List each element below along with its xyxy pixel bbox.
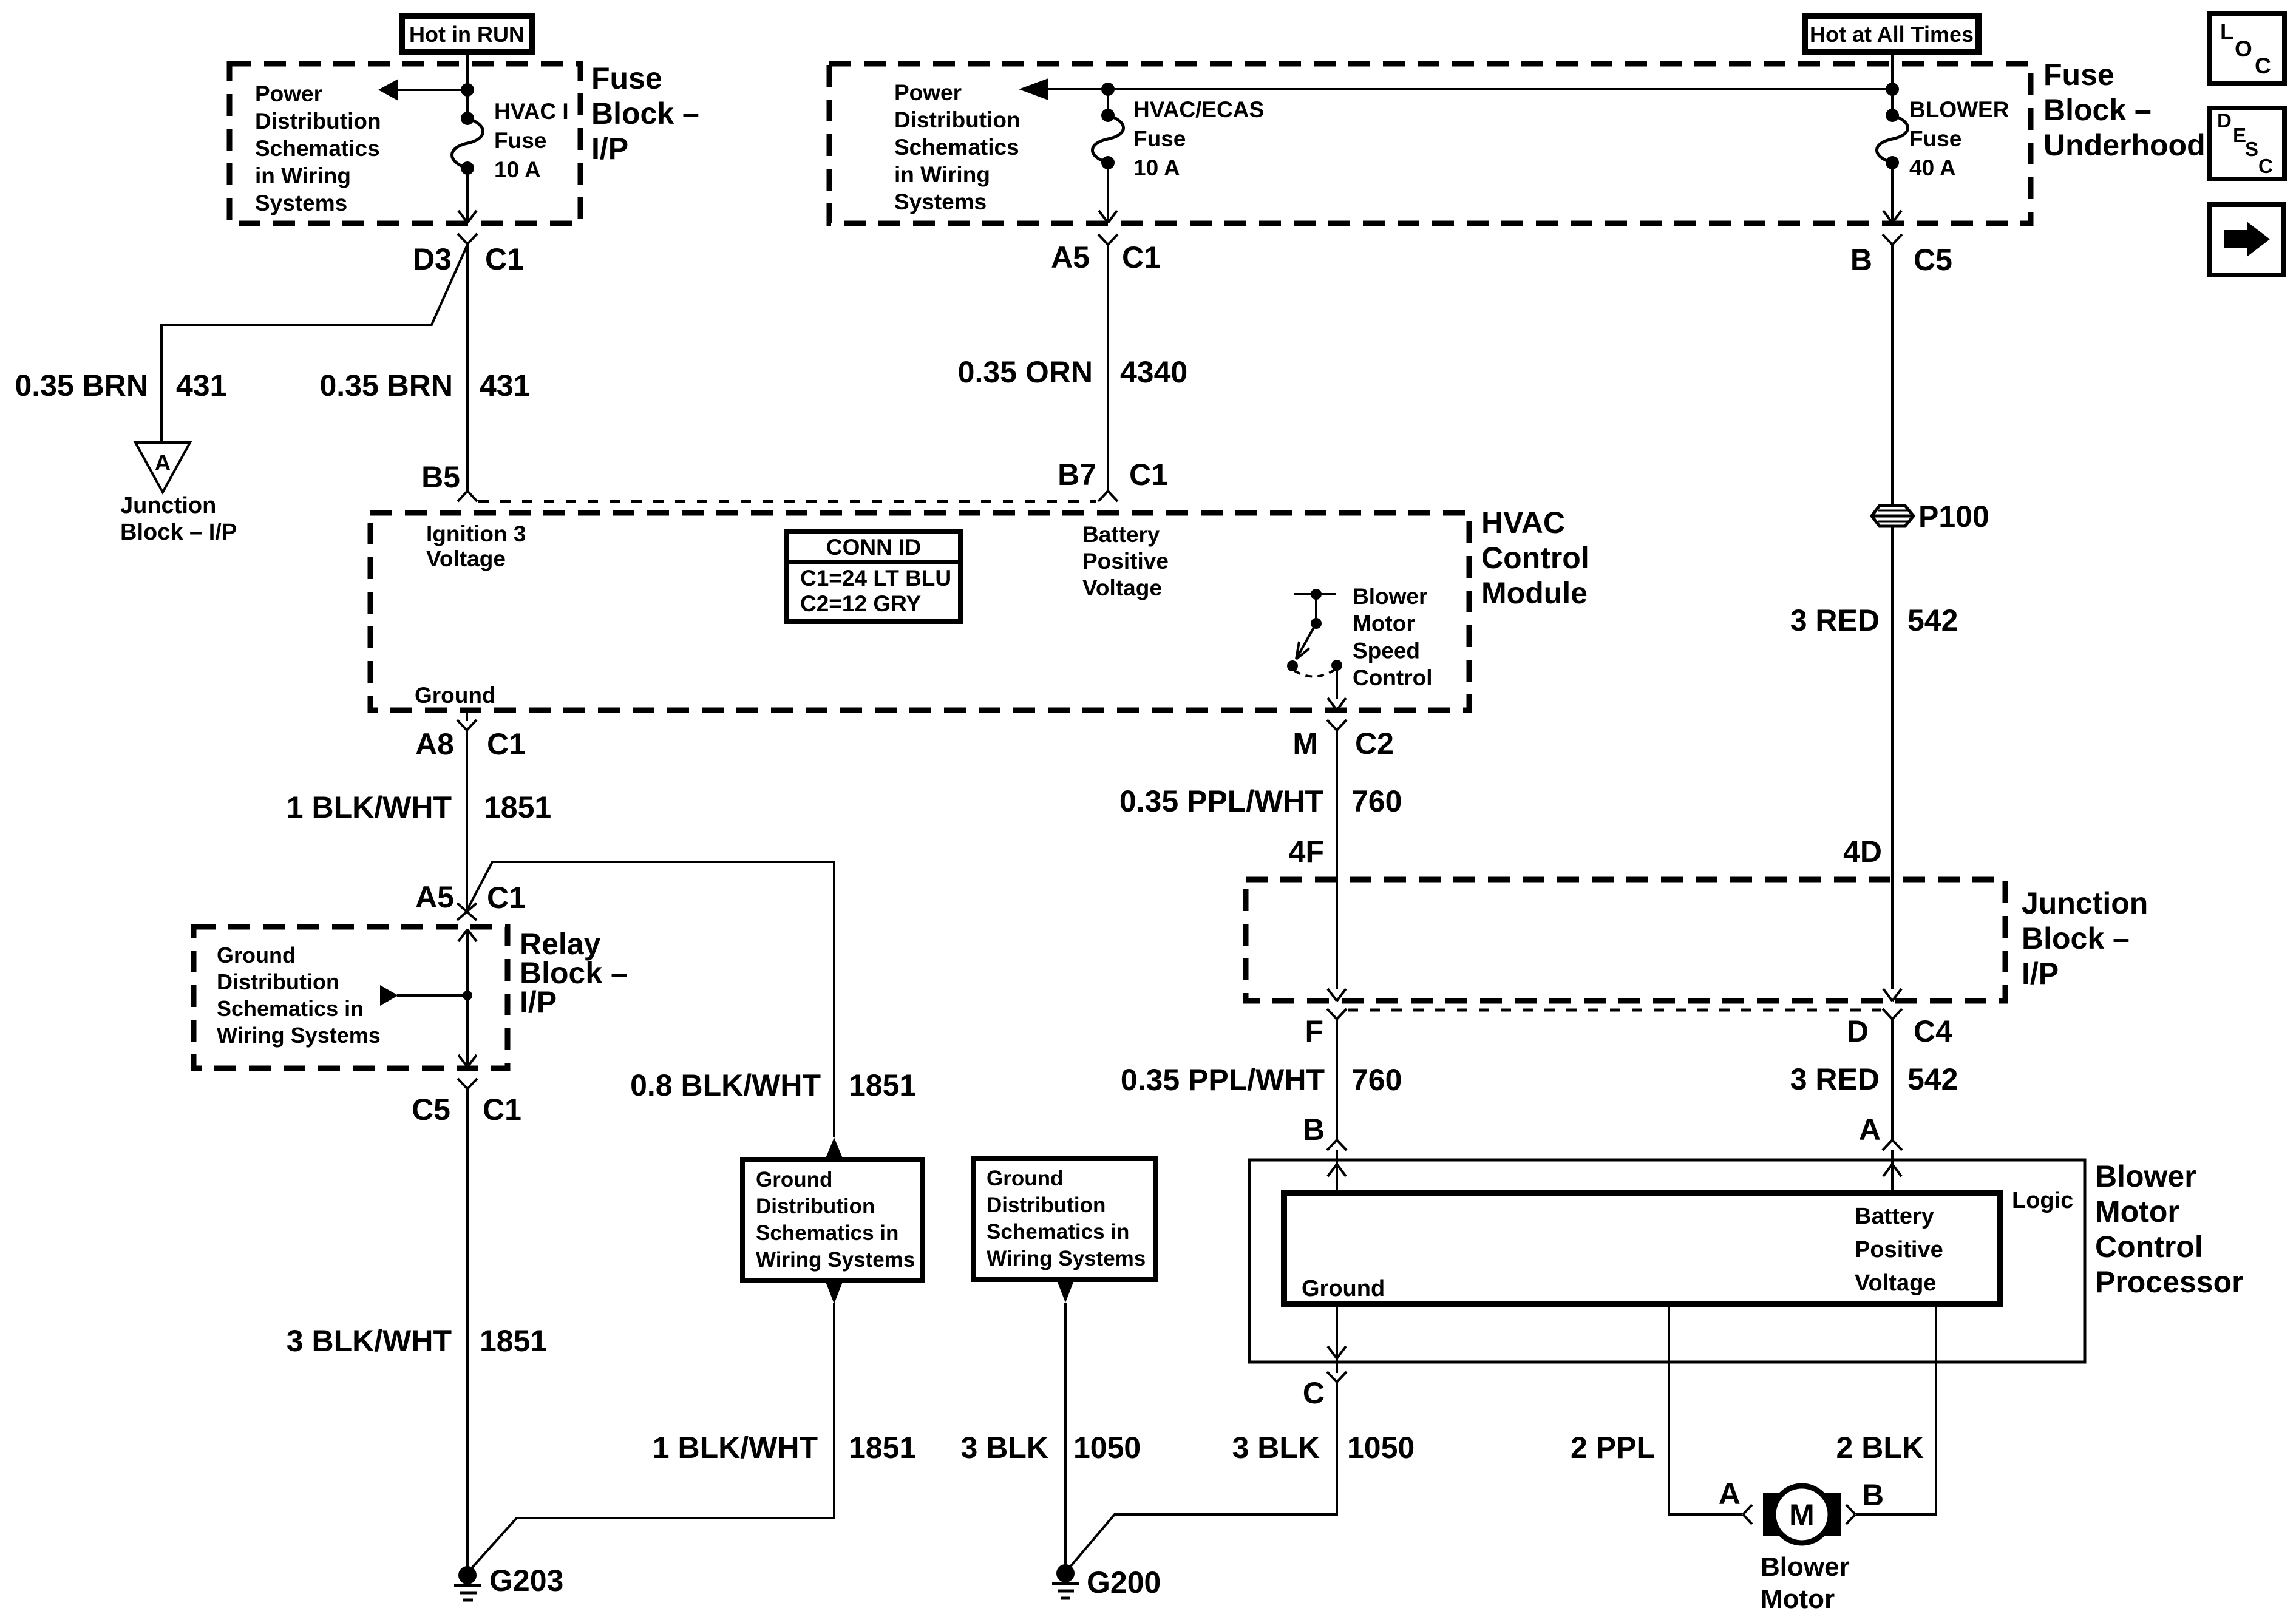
pin B (processor) — [1303, 1113, 1325, 1147]
svg-text:Fuse: Fuse — [494, 128, 546, 153]
wire 1050 box2 to G200 — [1064, 1303, 1067, 1573]
svg-text:Wiring Systems: Wiring Systems — [756, 1248, 915, 1272]
svg-text:Motor: Motor — [1353, 611, 1415, 636]
svg-text:Logic: Logic — [2012, 1188, 2073, 1213]
offpage arrow down from ground distribution box 2 — [1057, 1281, 1074, 1303]
relay block dashed box — [194, 927, 508, 1068]
label 0.35 ORN — [958, 355, 1093, 389]
connector B processor symbol — [1327, 1140, 1347, 1150]
label G200 — [1087, 1565, 1161, 1599]
pin A5 (top) — [1051, 240, 1090, 274]
inline connector P100 symbol — [1872, 506, 1914, 526]
svg-text:1851: 1851 — [849, 1431, 916, 1465]
svg-text:10 A: 10 A — [494, 157, 541, 182]
pin C2 — [1355, 727, 1394, 761]
svg-text:C5: C5 — [412, 1093, 450, 1127]
svg-text:Schematics: Schematics — [894, 135, 1019, 160]
svg-text:1851: 1851 — [484, 790, 551, 824]
svg-text:HVAC/ECAS: HVAC/ECAS — [1133, 97, 1264, 122]
svg-text:Distribution: Distribution — [255, 109, 381, 134]
connector B7 symbol — [1098, 491, 1118, 501]
wire 1851 C5 to G203 — [466, 1089, 469, 1575]
svg-text:Distribution: Distribution — [987, 1193, 1106, 1217]
wire 1851 box1 to G203 — [468, 1303, 834, 1572]
svg-text:O: O — [2235, 36, 2252, 61]
label 3 RED (lower) — [1790, 1062, 1880, 1096]
title Relay Block - I/P — [520, 927, 628, 1019]
connector F symbol — [1327, 1009, 1347, 1019]
wire A into logic with arrow — [1883, 1150, 1901, 1193]
svg-text:Control: Control — [2095, 1230, 2203, 1264]
wire HVAC/ECAS fuse output with down arrow — [1099, 163, 1117, 223]
svg-text:C4: C4 — [1914, 1014, 1952, 1048]
pin C — [1303, 1376, 1325, 1410]
svg-text:Voltage: Voltage — [1082, 575, 1162, 600]
svg-text:Voltage: Voltage — [426, 546, 506, 571]
off-page triangle A junction block — [135, 442, 190, 492]
svg-text:Positive: Positive — [1855, 1237, 1943, 1263]
offpage arrow down from ground distribution box 1 — [826, 1282, 843, 1304]
label 3 BLK/WHT — [287, 1324, 452, 1358]
svg-text:2 PPL: 2 PPL — [1571, 1431, 1655, 1465]
svg-text:F: F — [1305, 1014, 1323, 1048]
svg-text:A5: A5 — [415, 880, 454, 914]
pin F — [1305, 1014, 1323, 1048]
svg-text:A: A — [1859, 1113, 1881, 1147]
label box Hot in RUN — [402, 16, 532, 52]
wire 2 PPL logic to motor A — [1669, 1304, 1742, 1514]
svg-text:1 BLK/WHT: 1 BLK/WHT — [287, 790, 452, 824]
blower motor speed control switch — [1287, 589, 1346, 710]
svg-text:431: 431 — [176, 368, 226, 402]
note Ground Distribution Schematics box 2 — [987, 1167, 1146, 1270]
wire 2 BLK logic to motor B — [1856, 1304, 1936, 1514]
svg-text:Junction: Junction — [2022, 886, 2148, 920]
reference box LOC — [2209, 13, 2284, 84]
connector A5/C1 symbol — [1098, 234, 1118, 245]
wire ground out of logic with arrow — [1328, 1304, 1346, 1373]
svg-text:B7: B7 — [1058, 458, 1096, 492]
svg-text:B5: B5 — [421, 460, 460, 494]
svg-text:Ground: Ground — [415, 683, 496, 708]
svg-text:431: 431 — [480, 368, 530, 402]
svg-text:A: A — [1719, 1477, 1741, 1511]
svg-text:B: B — [1303, 1113, 1325, 1147]
label 4340 — [1120, 355, 1187, 389]
svg-text:3 BLK/WHT: 3 BLK/WHT — [287, 1324, 452, 1358]
svg-text:Systems: Systems — [255, 191, 347, 215]
svg-text:G203: G203 — [489, 1564, 563, 1598]
svg-text:0.35 BRN: 0.35 BRN — [15, 368, 148, 402]
arrow from ground distribution into relay wire — [380, 985, 467, 1006]
wire 542 B/C5 to P100 — [1891, 245, 1894, 506]
junction dot B+ feed (left) — [461, 83, 474, 97]
svg-text:C: C — [2255, 53, 2271, 78]
label 0.35 BRN (main) — [319, 368, 453, 402]
wire 4340 A5 to B7 — [1107, 245, 1109, 491]
svg-text:Schematics in: Schematics in — [987, 1220, 1129, 1244]
connector M/C2 symbol — [1327, 720, 1347, 730]
connector B/C5 symbol — [1883, 234, 1902, 245]
wire 760 M/C2 to junction block — [1328, 730, 1346, 1001]
svg-text:Schematics: Schematics — [255, 136, 380, 161]
pin C1 (D3) — [485, 242, 524, 276]
svg-text:Battery: Battery — [1082, 522, 1160, 547]
svg-text:0.8 BLK/WHT: 0.8 BLK/WHT — [630, 1068, 821, 1102]
label 542 (lower) — [1907, 1062, 1958, 1096]
svg-text:3 BLK: 3 BLK — [961, 1431, 1048, 1465]
wire from Hot at All Times — [1891, 52, 1894, 117]
label 3 BLK (left) — [961, 1431, 1048, 1465]
pin D3 — [413, 242, 452, 276]
pin B (motor) — [1862, 1478, 1884, 1512]
pin A (motor) — [1719, 1477, 1741, 1511]
svg-text:A5: A5 — [1051, 240, 1090, 274]
pin A5 (relay) — [415, 880, 454, 914]
svg-text:Positive: Positive — [1082, 549, 1169, 574]
wire 542 D to processor — [1891, 1019, 1894, 1140]
wire B into logic with arrow — [1328, 1150, 1346, 1193]
svg-text:I/P: I/P — [2022, 957, 2059, 991]
svg-text:Schematics in: Schematics in — [217, 996, 364, 1021]
svg-text:Speed: Speed — [1353, 638, 1420, 663]
wire fuse output with down arrow — [458, 168, 477, 223]
label 0.8 BLK/WHT — [630, 1068, 821, 1102]
pin C4 — [1914, 1014, 1952, 1048]
svg-text:G200: G200 — [1087, 1565, 1161, 1599]
pin C5 — [1914, 243, 1952, 277]
connector C5/C1 symbol — [458, 1079, 477, 1089]
svg-text:HVAC: HVAC — [1481, 506, 1565, 540]
svg-text:C2: C2 — [1355, 727, 1394, 761]
svg-text:I/P: I/P — [520, 985, 557, 1019]
svg-text:Blower: Blower — [1353, 584, 1427, 609]
label HVAC I Fuse 10 A — [494, 99, 569, 182]
svg-text:C5: C5 — [1914, 243, 1952, 277]
connector C symbol — [1327, 1372, 1347, 1382]
svg-text:0.35 BRN: 0.35 BRN — [319, 368, 453, 402]
svg-text:Blower: Blower — [2095, 1159, 2196, 1193]
label 542 (upper) — [1907, 603, 1958, 637]
svg-text:C1: C1 — [483, 1093, 521, 1127]
svg-text:S: S — [2245, 138, 2258, 160]
svg-text:4D: 4D — [1843, 835, 1882, 869]
wire 1851 A8 to A5 — [466, 730, 468, 912]
title Junction Block - I/P — [2022, 886, 2148, 991]
svg-text:Block –: Block – — [2022, 921, 2130, 955]
label 431 (branch) — [176, 368, 226, 402]
junction block connector thin dashed line — [1348, 1009, 1881, 1012]
pin C5 (relay) — [412, 1093, 450, 1127]
label 1 BLK/WHT — [287, 790, 452, 824]
svg-text:Fuse: Fuse — [1133, 126, 1186, 151]
arrow to power distribution schematics (left) — [378, 79, 467, 101]
svg-text:C1: C1 — [487, 727, 526, 761]
note Ground Distribution Schematics (relay box) — [217, 943, 381, 1048]
label 431 (main) — [480, 368, 530, 402]
branch wire 1851 to ground distribution — [467, 862, 834, 1137]
connector A processor symbol — [1883, 1140, 1902, 1150]
svg-text:Distribution: Distribution — [894, 107, 1021, 132]
svg-text:Battery: Battery — [1855, 1204, 1934, 1229]
svg-text:Ground: Ground — [756, 1168, 832, 1192]
pin 4F — [1289, 835, 1324, 869]
svg-text:L: L — [2220, 19, 2234, 44]
ground distribution box 2 — [973, 1158, 1155, 1280]
svg-text:542: 542 — [1907, 603, 1958, 637]
svg-text:Power: Power — [894, 80, 962, 105]
fuse block I/P dashed box — [229, 64, 580, 223]
pin M — [1292, 727, 1318, 761]
svg-text:in Wiring: in Wiring — [894, 162, 990, 187]
svg-text:D: D — [2217, 109, 2232, 132]
branch wire 431 to junction block A — [161, 245, 467, 442]
pin C1 (relay A5) — [487, 881, 526, 915]
svg-text:Ground: Ground — [987, 1167, 1063, 1190]
pin A8 — [415, 727, 454, 761]
pin D — [1847, 1014, 1869, 1048]
svg-text:Motor: Motor — [1761, 1584, 1835, 1614]
svg-text:Block – I/P: Block – I/P — [120, 520, 237, 545]
label Battery Positive Voltage (module) — [1082, 522, 1169, 600]
label 0.35 BRN (branch) — [15, 368, 148, 402]
title Fuse Block - Underhood — [2043, 58, 2206, 162]
ground G200 symbol — [1052, 1564, 1079, 1598]
svg-text:0.35 PPL/WHT: 0.35 PPL/WHT — [1121, 1063, 1325, 1097]
svg-text:M: M — [1789, 1498, 1815, 1532]
connector A5/C1 relay symbol — [457, 903, 477, 920]
svg-text:Power: Power — [255, 81, 322, 106]
svg-text:0.35 ORN: 0.35 ORN — [958, 355, 1093, 389]
svg-text:Fuse: Fuse — [2043, 58, 2114, 92]
blower motor M symbol — [1763, 1486, 1841, 1543]
svg-text:C1=24 LT BLU: C1=24 LT BLU — [800, 566, 951, 591]
svg-text:Block –: Block – — [591, 97, 699, 131]
junction dot B+ feed (right) — [1886, 83, 1899, 96]
svg-text:in Wiring: in Wiring — [255, 163, 351, 188]
svg-text:10 A: 10 A — [1133, 155, 1180, 180]
label Junction Block - I/P — [120, 493, 237, 545]
label 3 BLK (right) — [1232, 1431, 1320, 1465]
junction dot relay ground — [463, 991, 472, 1000]
label 1050 (right) — [1347, 1431, 1415, 1465]
note Ground Distribution Schematics box 1 — [756, 1168, 915, 1272]
title Blower Motor Control Processor — [2095, 1159, 2244, 1299]
svg-text:Ground: Ground — [217, 943, 296, 968]
label 760 (lower) — [1351, 1063, 1402, 1097]
svg-text:Wiring Systems: Wiring Systems — [217, 1023, 381, 1048]
arrow to power distribution schematics (right) — [1019, 78, 1048, 100]
svg-text:0.35 PPL/WHT: 0.35 PPL/WHT — [1119, 784, 1323, 818]
pin C1 (A8) — [487, 727, 526, 761]
note Power Distribution Schematics (right box) — [894, 80, 1021, 214]
svg-text:Hot in RUN: Hot in RUN — [409, 22, 525, 47]
label BLOWER Fuse 40 A — [1909, 97, 2009, 180]
connector D/C4 symbol — [1883, 1009, 1902, 1019]
svg-text:A: A — [155, 450, 171, 475]
ground G203 symbol — [454, 1566, 481, 1600]
svg-text:Underhood: Underhood — [2043, 128, 2206, 162]
svg-text:CONN ID: CONN ID — [826, 535, 921, 560]
svg-text:B: B — [1862, 1478, 1884, 1512]
label Battery Positive Voltage (processor) — [1855, 1204, 1943, 1296]
label 0.35 PPL/WHT (lower) — [1121, 1063, 1325, 1097]
connector motor B symbol — [1846, 1505, 1855, 1524]
connector A8/C1 symbol — [457, 710, 477, 730]
svg-text:Junction: Junction — [120, 493, 216, 518]
title HVAC Control Module — [1481, 506, 1589, 610]
svg-text:Fuse: Fuse — [591, 61, 662, 95]
wire 760 F to processor — [1336, 1019, 1338, 1140]
label 1851 (A8) — [484, 790, 551, 824]
label Ground (module) — [415, 683, 496, 708]
svg-text:C1: C1 — [485, 242, 524, 276]
svg-text:4340: 4340 — [1120, 355, 1187, 389]
wire through relay block with arrows — [458, 929, 477, 1067]
svg-text:E: E — [2233, 124, 2246, 146]
svg-text:D3: D3 — [413, 242, 452, 276]
label Ground (processor) — [1302, 1276, 1385, 1301]
svg-text:Distribution: Distribution — [756, 1195, 875, 1218]
note Power Distribution Schematics (left box) — [255, 81, 381, 215]
svg-text:Blower: Blower — [1761, 1552, 1850, 1582]
svg-text:2 BLK: 2 BLK — [1836, 1431, 1924, 1465]
pin B5 — [421, 460, 460, 494]
svg-text:1050: 1050 — [1073, 1431, 1141, 1465]
label Blower Motor — [1761, 1552, 1850, 1614]
label Ignition 3 Voltage — [426, 521, 526, 571]
svg-text:A8: A8 — [415, 727, 454, 761]
svg-text:Control: Control — [1353, 665, 1433, 690]
svg-text:Module: Module — [1481, 576, 1588, 610]
svg-text:M: M — [1292, 727, 1318, 761]
reference box next-page arrow — [2210, 205, 2284, 275]
label 1851 (bottom) — [849, 1431, 916, 1465]
junction block I/P dashed box — [1246, 880, 2005, 1001]
label 760 (upper) — [1351, 784, 1402, 818]
svg-text:Ground: Ground — [1302, 1276, 1385, 1301]
label 1050 (left) — [1073, 1431, 1141, 1465]
svg-text:C1: C1 — [1122, 240, 1161, 274]
label Blower Motor Speed Control — [1353, 584, 1433, 690]
svg-text:Distribution: Distribution — [217, 969, 339, 994]
svg-text:542: 542 — [1907, 1062, 1958, 1096]
svg-text:3 BLK: 3 BLK — [1232, 1431, 1320, 1465]
label box Hot at All Times — [1805, 16, 1978, 52]
wire 1050 C to G200 — [1067, 1382, 1337, 1571]
svg-text:C: C — [2258, 155, 2273, 177]
svg-text:HVAC I: HVAC I — [494, 99, 569, 124]
svg-text:1 BLK/WHT: 1 BLK/WHT — [653, 1431, 818, 1465]
wire BLOWER fuse output with down arrow — [1883, 163, 1901, 223]
wire tap to HVAC/ECAS fuse — [1107, 89, 1109, 117]
label 1851 (C5) — [480, 1324, 547, 1358]
svg-text:4F: 4F — [1289, 835, 1324, 869]
svg-text:3 RED: 3 RED — [1790, 1062, 1880, 1096]
connector B5 symbol — [458, 491, 477, 501]
wire 431 D3 to B5 — [466, 244, 469, 491]
svg-text:Systems: Systems — [894, 189, 987, 214]
HVAC control module dashed box — [370, 513, 1469, 710]
pin A (processor) — [1859, 1113, 1881, 1147]
svg-text:1851: 1851 — [849, 1068, 916, 1102]
svg-text:C: C — [1303, 1376, 1325, 1410]
svg-text:C1: C1 — [1129, 458, 1168, 492]
fuse block underhood dashed box — [829, 64, 2031, 223]
svg-text:Hot at All Times: Hot at All Times — [1810, 22, 1974, 47]
wire 542 through junction block — [1883, 880, 1901, 1001]
svg-text:Fuse: Fuse — [1909, 126, 1961, 151]
pin B7 — [1058, 458, 1096, 492]
svg-text:3 RED: 3 RED — [1790, 603, 1880, 637]
logic box — [1284, 1193, 2000, 1304]
pin 4D — [1843, 835, 1882, 869]
ground distribution box 1 — [742, 1159, 922, 1281]
svg-text:Processor: Processor — [2095, 1265, 2244, 1299]
svg-text:I/P: I/P — [591, 132, 628, 166]
label P100 — [1918, 500, 1989, 534]
fuse BLOWER 40A — [1877, 109, 1908, 169]
svg-text:Wiring Systems: Wiring Systems — [987, 1247, 1146, 1270]
label G203 — [489, 1564, 563, 1598]
label 3 RED (upper) — [1790, 603, 1880, 637]
blower motor control processor box — [1249, 1160, 2085, 1362]
label Logic — [2012, 1188, 2073, 1213]
svg-text:Block –: Block – — [2043, 93, 2152, 127]
svg-text:760: 760 — [1351, 784, 1402, 818]
pin C1 (relay bottom) — [483, 1093, 521, 1127]
label 1 BLK/WHT (bottom) — [653, 1431, 818, 1465]
wire from Hot in RUN into fuse block — [466, 52, 469, 117]
label 1851 (0.8) — [849, 1068, 916, 1102]
svg-text:Motor: Motor — [2095, 1195, 2179, 1229]
pin B (fuse block) — [1850, 243, 1872, 277]
fuse HVAC/ECAS 10A — [1093, 109, 1124, 169]
module connector thin dashed line C1 — [478, 500, 1096, 503]
connector D3/C1 symbol — [458, 234, 477, 244]
svg-text:D: D — [1847, 1014, 1869, 1048]
label 2 BLK — [1836, 1431, 1924, 1465]
svg-text:BLOWER: BLOWER — [1909, 97, 2009, 122]
bus wire to HVAC/ECAS fuse — [1038, 88, 1892, 90]
svg-text:Ignition 3: Ignition 3 — [426, 521, 526, 546]
svg-text:760: 760 — [1351, 1063, 1402, 1097]
offpage arrow up into ground distribution box 1 — [826, 1137, 843, 1158]
svg-text:C2=12 GRY: C2=12 GRY — [800, 591, 921, 616]
pin C1 (A5 top) — [1122, 240, 1161, 274]
svg-text:P100: P100 — [1918, 500, 1989, 534]
reference box DESC — [2210, 108, 2284, 179]
junction dot HVAC/ECAS tap — [1101, 83, 1115, 96]
fuse HVAC I 10A — [452, 112, 483, 175]
svg-text:Schematics in: Schematics in — [756, 1221, 898, 1245]
svg-text:Voltage: Voltage — [1855, 1270, 1936, 1296]
svg-text:B: B — [1850, 243, 1872, 277]
svg-text:C1: C1 — [487, 881, 526, 915]
pin C1 (B7) — [1129, 458, 1168, 492]
CONN ID table — [787, 532, 960, 622]
title Fuse Block - I/P — [591, 61, 699, 166]
svg-text:40 A: 40 A — [1909, 155, 1956, 180]
svg-text:1050: 1050 — [1347, 1431, 1415, 1465]
svg-text:Control: Control — [1481, 541, 1589, 575]
connector motor A symbol — [1743, 1505, 1752, 1524]
label HVAC/ECAS Fuse 10 A — [1133, 97, 1264, 180]
wire 542 P100 to junction block — [1891, 526, 1894, 989]
label 2 PPL — [1571, 1431, 1655, 1465]
label 0.35 PPL/WHT (upper) — [1119, 784, 1323, 818]
svg-text:1851: 1851 — [480, 1324, 547, 1358]
